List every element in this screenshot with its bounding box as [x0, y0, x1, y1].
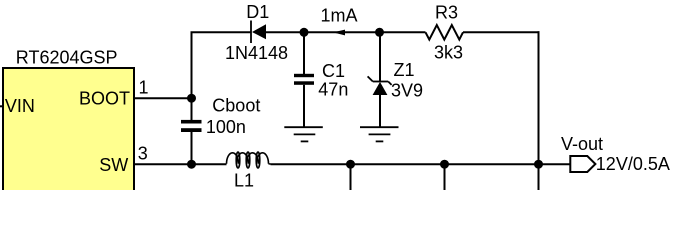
svg-text:3V9: 3V9: [391, 81, 423, 101]
diode D1: [251, 21, 266, 44]
resistor R3 value 3k3: [434, 42, 463, 62]
wire stub down at node 1: [350, 164, 352, 190]
node C1 top junction: [300, 28, 309, 37]
current arrow 1mA: [333, 30, 345, 36]
svg-text:R3: R3: [435, 2, 458, 22]
wire VIN stub: [0, 105, 4, 107]
svg-text:D1: D1: [246, 2, 269, 22]
wire output rail L1 to connector: [271, 163, 571, 165]
node output junction 2: [440, 160, 449, 169]
diode D1 label: [246, 2, 269, 22]
wire C1 bottom to ground: [303, 85, 305, 127]
ground below C1: [284, 127, 323, 141]
svg-text:L1: L1: [234, 170, 254, 190]
svg-text:47n: 47n: [318, 79, 348, 99]
svg-text:VIN: VIN: [5, 96, 35, 116]
svg-text:12V/0.5A: 12V/0.5A: [596, 154, 670, 174]
svg-text:100n: 100n: [206, 117, 246, 137]
capacitor Cboot: [181, 120, 202, 132]
inductor L1: [227, 152, 271, 168]
node Z1 top junction: [375, 28, 384, 37]
wire BOOT pin to node: [134, 97, 192, 99]
resistor R3: [426, 25, 464, 39]
wire BOOT node up to top rail: [191, 32, 193, 120]
capacitor C1 branch wire top: [303, 32, 305, 74]
zener Z1 label: [394, 60, 415, 80]
svg-text:V-out: V-out: [561, 134, 603, 154]
svg-text:Z1: Z1: [394, 60, 415, 80]
svg-text:Cboot: Cboot: [212, 96, 260, 116]
wire top rail left segment: [191, 31, 252, 33]
ground below Z1: [360, 127, 399, 141]
node output junction 3: [534, 160, 543, 169]
node output junction 1: [346, 160, 355, 169]
zener Z1 value 3V9: [391, 81, 423, 101]
resistor R3 label: [435, 2, 458, 22]
net label V-out: [561, 134, 603, 154]
svg-text:1N4148: 1N4148: [225, 43, 288, 63]
svg-text:3: 3: [138, 144, 148, 164]
IC U1 label RT6204GSP: [16, 47, 118, 67]
capacitor Cboot value 100n: [206, 117, 246, 137]
capacitor C1 label: [322, 61, 345, 81]
node SW junction: [187, 160, 196, 169]
connector V-out: [570, 156, 595, 172]
svg-text:1: 1: [139, 78, 149, 98]
svg-text:RT6204GSP: RT6204GSP: [16, 47, 118, 67]
capacitor Cboot label: [212, 96, 260, 116]
svg-text:BOOT: BOOT: [79, 88, 130, 108]
wire top rail D1 to R3: [266, 31, 426, 33]
pin number 3: [138, 144, 148, 164]
wire Z1 to ground: [379, 95, 381, 127]
wire top rail R3 to right corner: [463, 31, 540, 33]
diode D1 value 1N4148: [225, 43, 288, 63]
pin VIN label: [5, 96, 35, 116]
output value 12V/0.5A: [596, 154, 670, 174]
svg-text:3k3: 3k3: [434, 42, 463, 62]
wire right vertical down: [538, 31, 540, 190]
wire stub down at node 2: [444, 164, 446, 190]
wire Cboot bottom to SW rail: [191, 132, 193, 165]
wire SW pin to L1: [134, 163, 227, 165]
IC U1 RT6204GSP body: [3, 68, 134, 198]
pin number 1: [139, 78, 149, 98]
inductor L1 label: [234, 170, 254, 190]
zener diode Z1: [368, 76, 392, 95]
capacitor C1: [294, 74, 314, 85]
node BOOT junction: [187, 94, 196, 103]
pin SW label: [99, 155, 128, 175]
current label 1mA: [321, 6, 358, 26]
pin BOOT label: [79, 88, 130, 108]
wire Z1 branch top: [379, 32, 381, 81]
svg-text:1mA: 1mA: [321, 6, 358, 26]
capacitor C1 value 47n: [318, 79, 348, 99]
svg-text:SW: SW: [99, 155, 128, 175]
svg-text:C1: C1: [322, 61, 345, 81]
